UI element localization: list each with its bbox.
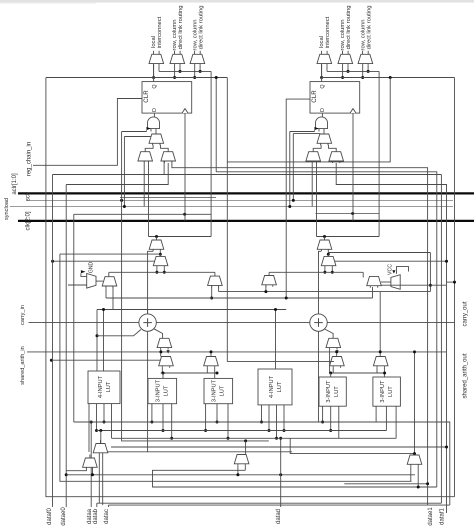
svg-text:4-INPUT: 4-INPUT bbox=[98, 375, 104, 398]
svg-text:datad: datad bbox=[276, 509, 282, 524]
svg-text:interconnect: interconnect bbox=[157, 16, 163, 48]
svg-text:CLR: CLR bbox=[143, 90, 150, 103]
svg-text:3-INPUT: 3-INPUT bbox=[212, 379, 218, 402]
svg-text:Q: Q bbox=[320, 84, 326, 88]
svg-text:shared_arith_out: shared_arith_out bbox=[463, 353, 469, 398]
svg-text:VCC: VCC bbox=[388, 264, 394, 275]
svg-text:carry_out: carry_out bbox=[463, 301, 469, 326]
svg-text:syncload: syncload bbox=[4, 198, 10, 220]
svg-text:CLR: CLR bbox=[311, 90, 318, 103]
svg-text:direct link routing: direct link routing bbox=[178, 6, 184, 50]
svg-text:Q: Q bbox=[152, 84, 158, 88]
svg-text:datac: datac bbox=[104, 509, 110, 524]
svg-text:3-INPUT: 3-INPUT bbox=[156, 379, 162, 402]
svg-text:aclr[1:0]: aclr[1:0] bbox=[12, 173, 18, 195]
svg-text:GND: GND bbox=[88, 261, 94, 273]
svg-text:3-INPUT: 3-INPUT bbox=[326, 380, 332, 403]
svg-text:LUT: LUT bbox=[334, 386, 340, 397]
svg-text:dataf0: dataf0 bbox=[47, 507, 53, 524]
svg-text:direct link routing: direct link routing bbox=[198, 6, 204, 50]
svg-text:datae0: datae0 bbox=[61, 507, 67, 526]
svg-text:dataa: dataa bbox=[87, 508, 93, 524]
svg-text:LUT: LUT bbox=[106, 381, 112, 392]
svg-text:D: D bbox=[320, 108, 326, 112]
svg-text:carry_in: carry_in bbox=[20, 305, 26, 325]
svg-text:dataf1: dataf1 bbox=[440, 507, 446, 524]
svg-text:shared_arith_in: shared_arith_in bbox=[20, 346, 26, 385]
svg-text:interconnect: interconnect bbox=[325, 16, 331, 48]
svg-text:clk[2:0]: clk[2:0] bbox=[26, 211, 32, 230]
svg-text:LUT: LUT bbox=[164, 385, 170, 396]
svg-text:LUT: LUT bbox=[388, 386, 394, 397]
svg-text:3-INPUT: 3-INPUT bbox=[380, 380, 386, 403]
svg-text:datab: datab bbox=[93, 508, 99, 524]
svg-text:sclr: sclr bbox=[26, 192, 32, 201]
svg-text:reg_chain_in: reg_chain_in bbox=[27, 142, 33, 176]
svg-text:direct link routing: direct link routing bbox=[366, 6, 372, 50]
svg-text:4-INPUT: 4-INPUT bbox=[269, 375, 275, 398]
svg-text:datae1: datae1 bbox=[428, 507, 434, 526]
svg-text:direct link routing: direct link routing bbox=[346, 6, 352, 50]
svg-text:LUT: LUT bbox=[220, 385, 226, 396]
svg-text:LUT: LUT bbox=[277, 381, 283, 392]
svg-text:D: D bbox=[152, 108, 158, 112]
